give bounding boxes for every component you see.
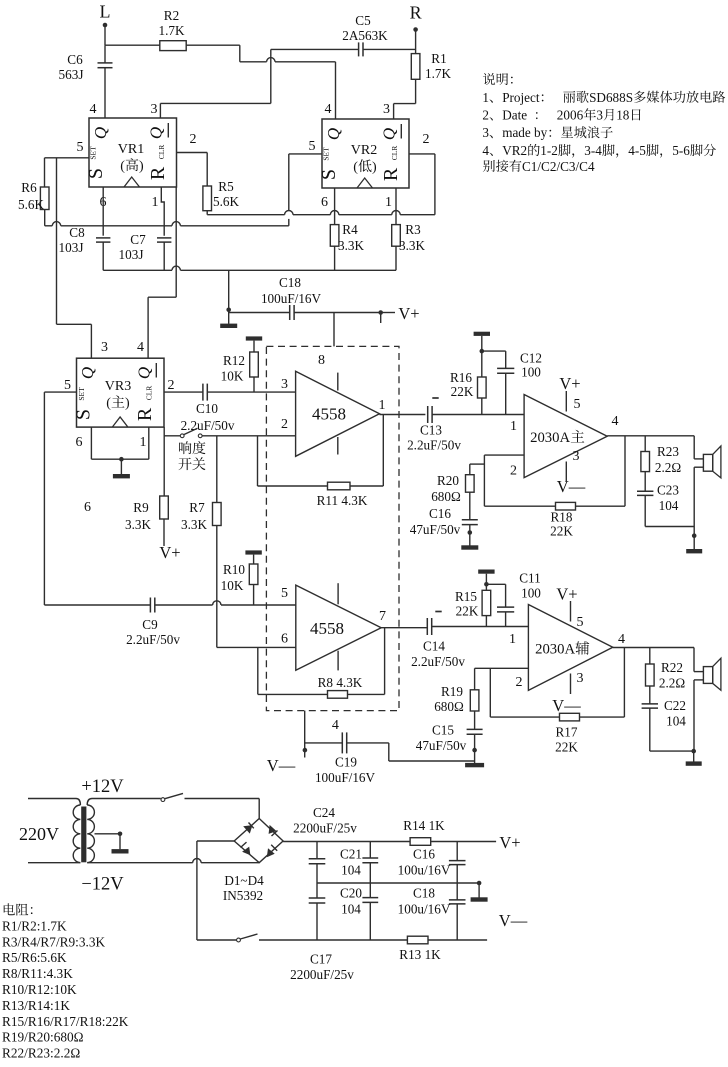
speaker aux [694,648,721,752]
wire L node down to R2 level [104,25,106,45]
net label V- psu [499,911,528,930]
svg-text:104: 104 [666,714,686,729]
wire 4558B out to C14 [381,627,427,629]
ground under C15 [465,750,484,767]
svg-text:100: 100 [521,586,541,601]
pin label VR1-6 [100,195,107,210]
svg-text:V—: V— [499,911,528,930]
pin label 4558B-5 [281,586,288,601]
transformer T1 primary [28,799,80,863]
svg-text:V+: V+ [559,374,580,393]
svg-text:4: 4 [137,340,144,355]
svg-text:1: 1 [385,195,392,210]
svg-text:2.2Ω: 2.2Ω [655,460,681,475]
wire 2030A output [607,435,694,437]
capacitor C16 psu [398,842,466,884]
wire R18 to pin2 [484,455,555,506]
svg-text:VR1: VR1 [118,142,144,157]
power switch bottom [237,934,408,942]
svg-text:2: 2 [516,675,523,690]
resistor R11 [317,482,368,508]
svg-text:R15/R16/R17/R18:22K: R15/R16/R17/R18:22K [2,1014,129,1029]
svg-text:2: 2 [281,417,288,432]
wire C10 to 4558 pin3 [207,391,295,393]
svg-text:47uF/50v: 47uF/50v [410,522,461,537]
pin label 2030A-2 [510,464,517,479]
svg-text:C15: C15 [432,723,454,738]
ground under speaker main [686,536,702,554]
pin label VR1-3 [151,102,158,117]
wire VR1 pin2 to R5 [177,153,208,187]
feedback wire to R11 [350,415,383,487]
svg-text:22K: 22K [451,384,474,399]
resistor R16 [450,351,486,399]
resistor R1 [411,51,451,81]
resistor R9 [125,496,168,532]
pin label 2030B-3 [577,671,584,686]
svg-text:3: 3 [482,125,489,140]
analog switch VR3 [73,358,165,427]
pin label VR2-5 [309,139,316,154]
svg-text:R22: R22 [661,660,683,675]
svg-text:R16: R16 [450,370,472,385]
svg-text:Q: Q [147,127,166,139]
wire R1 to VR2 pin3 [394,79,416,119]
svg-text:C16: C16 [413,847,435,862]
svg-text:V—: V— [267,756,296,775]
svg-text:R13/R14:1K: R13/R14:1K [2,998,70,1013]
pin label VR1-4 [90,102,97,117]
wire ground rail to C18 node [228,270,230,310]
transformer core [81,807,86,863]
svg-text:680Ω: 680Ω [434,699,464,714]
wire VR3 corner to switch and R9 [164,427,180,496]
svg-text:R: R [147,166,169,180]
svg-text:R13 1K: R13 1K [399,947,441,962]
node L input [100,2,111,28]
svg-text:4558: 4558 [312,405,346,424]
wire R15 to input wire [485,616,487,627]
wire C9 to 4558 pin5 [155,601,296,605]
svg-text:R4: R4 [342,222,358,237]
capacitor C8 [59,225,111,255]
svg-text:3: 3 [596,108,603,123]
svg-text:R19/R20:680Ω: R19/R20:680Ω [2,1030,84,1045]
svg-text:S: S [73,409,95,420]
svg-text:2.2uF/50v: 2.2uF/50v [407,438,461,453]
node R input [410,3,422,32]
wire C13 to 2030A pin1 [432,414,524,416]
svg-text:S: S [85,168,107,179]
svg-text:680Ω: 680Ω [431,489,461,504]
pin label 4558B-6 [281,632,288,647]
svg-text:V—: V— [557,477,586,496]
svg-text:Q: Q [380,128,399,140]
svg-text:5: 5 [309,139,316,154]
power tap above R16 [474,332,490,351]
capacitor C24 [293,805,357,883]
wire R16 to input wire [481,398,483,415]
svg-text:R18: R18 [551,510,573,525]
svg-text:100uF/16V: 100uF/16V [315,770,376,785]
notes text [482,73,725,174]
svg-text:C10: C10 [196,401,218,416]
svg-text:6: 6 [76,435,83,450]
wire R11 to pin2 wire [258,436,328,486]
svg-text:18: 18 [616,108,630,123]
wire R7 to 4558 pin6 [217,526,296,648]
svg-text:2.2uF/50v: 2.2uF/50v [126,632,180,647]
svg-text:2: 2 [482,108,489,123]
wire switch to 4558 pin2 [202,435,296,437]
net label V- 2030A [557,477,586,496]
svg-text:R1/R2:1.7K: R1/R2:1.7K [2,918,67,933]
svg-text:(: ( [353,160,358,175]
pin tick 4558A top [337,373,339,391]
wire 2030A pin2 [484,454,524,456]
node C18 ground junction [226,308,231,313]
middle rail 0V [317,882,479,884]
resistor R3 [392,222,426,253]
svg-text:5-6: 5-6 [672,143,690,158]
svg-text:C22: C22 [664,698,686,713]
op-amp 4558 A [296,371,380,456]
wire C7 to ground rail [163,242,165,270]
capacitor C22 [642,686,687,729]
pin label VR1-1 [152,195,159,210]
pin label VR2-1 [385,195,392,210]
svg-text:104: 104 [341,902,361,917]
svg-text:SET: SET [322,147,331,161]
svg-text:1: 1 [482,90,489,105]
svg-text:3-4: 3-4 [584,143,602,158]
pin label VR3-1 [140,435,147,450]
svg-text:): ) [125,396,130,411]
svg-text:1: 1 [140,435,147,450]
wire R node to R1 [415,30,417,54]
op-amp 2030A main [524,395,607,478]
ground under VR3 [113,459,130,478]
svg-text:+12V: +12V [81,777,124,797]
svg-text:2030A: 2030A [535,642,575,658]
svg-text:D1~D4: D1~D4 [224,873,264,888]
net label V+ psu [499,833,520,852]
svg-text:103J: 103J [59,240,84,255]
svg-text:22K: 22K [550,524,573,539]
svg-text:SET: SET [77,387,86,401]
svg-text:C16: C16 [429,506,451,521]
svg-text:5.6K: 5.6K [18,197,44,212]
capacitor C13 [407,398,461,453]
resistor R5 [203,179,240,211]
svg-text:563J: 563J [59,67,84,82]
capacitor C5 [342,13,388,56]
wire 2030B output [613,647,694,649]
node speaker ground junction [692,527,697,539]
capacitor C7 [119,232,172,262]
op-amp 4558 B [296,585,381,670]
pin tick 4558B top [337,583,339,604]
power switch top [161,793,259,801]
svg-text:R20: R20 [437,473,459,488]
wire C19 to C15 ground [347,743,475,761]
svg-text:10K: 10K [221,369,244,384]
svg-text:3: 3 [281,377,288,392]
ground rail under C7 C8 R4 R3 [103,266,396,270]
wire VR1 pin1 to C7 [161,187,164,236]
wire VR2 pin5 riser [289,154,322,211]
ground at C18 node [220,310,237,328]
svg-text:SD688S: SD688S [589,90,633,105]
svg-text:104: 104 [341,863,361,878]
ground under speaker aux [686,751,702,766]
net label V+ 2030B [556,585,577,604]
pin label VR2-6 [321,195,328,210]
wire VR3 pin2 to C10 [164,391,203,393]
wire VR1 pin5 branch to VR3 pin3 [57,158,92,358]
svg-text:4: 4 [482,143,489,158]
svg-text:CLR: CLR [157,145,166,160]
svg-text:R12: R12 [223,353,245,368]
resistor R2 [158,8,186,51]
analog switch VR2 [318,119,409,188]
svg-text:C13: C13 [420,423,442,438]
svg-text:Q: Q [78,367,97,379]
wire VR1 pin3 to C5 [160,49,358,118]
svg-text:2.2Ω: 2.2Ω [659,676,685,691]
wire VR3 pin6 pin1 to ground [91,427,148,459]
svg-text:5: 5 [64,378,71,393]
pin label 2030A-4 [612,414,619,429]
wire C5 to R1 [363,48,416,50]
wire L to R2 [105,44,160,46]
ground middle rail [471,883,488,902]
svg-text:4: 4 [90,102,97,117]
svg-text:5: 5 [577,615,584,630]
wire R17 to pin2 [490,668,559,717]
resistor R7 [181,436,221,532]
resistor R23 [641,436,681,475]
svg-text:V+: V+ [159,543,180,562]
pin label 4558A-8 [318,353,325,368]
svg-text:C11: C11 [519,571,541,586]
capacitor C17 [290,883,354,982]
pin label 4558B-7 [379,609,386,624]
wire 4558A out to C13 [380,414,426,416]
svg-text:C23: C23 [657,483,679,498]
pin tick 4558A bottom [337,437,339,455]
capacitor C6 [59,45,113,118]
svg-text:C17: C17 [310,952,332,967]
pin label 4558-4 [332,718,339,733]
wire R9 to V+ [163,519,165,546]
feedback drop 2030B [580,648,625,718]
svg-text:CLR: CLR [390,146,399,161]
wire V- to C19 [304,711,306,758]
power tap above R10 [245,550,261,564]
loudness switch [179,428,206,470]
pin label VR2-3 [383,102,390,117]
resistor R14 [403,818,445,845]
capacitor C11 [486,571,541,627]
wire R3 to ground rail [395,246,397,270]
capacitor C14 [411,612,465,670]
resistor R19 [434,668,479,714]
ground under C16 [461,533,478,550]
svg-text:R3: R3 [405,222,421,237]
svg-text:R1: R1 [431,51,446,66]
svg-text:C19: C19 [335,755,357,770]
svg-text:8: 8 [318,353,325,368]
node C16 bottom [468,525,473,535]
resistor R15 [455,584,491,618]
power tap above R15 [478,570,494,585]
svg-text:3: 3 [573,449,580,464]
svg-text:1: 1 [510,419,517,434]
node V- tap [303,748,308,753]
svg-text:47uF/50v: 47uF/50v [416,738,467,753]
wire R6 to VR2 pin5 [45,210,289,226]
svg-text:C6: C6 [67,52,83,67]
node C15 bottom [472,734,477,752]
svg-text:2200uF/25v: 2200uF/25v [293,821,357,836]
svg-text:R10: R10 [223,562,245,577]
wire C14 to 2030B pin1 [432,626,529,628]
wire VR1 pin5 [45,157,90,159]
power tap above R12 [246,336,262,352]
pin label 2030A-5 [574,397,581,412]
wire VR2 pin6 to R4 [334,188,336,225]
wire C22 to speaker return [650,708,694,751]
pin label 4558A-1 [379,398,386,413]
svg-text:R17: R17 [556,725,578,740]
svg-text:R3/R4/R7/R9:3.3K: R3/R4/R7/R9:3.3K [2,934,105,949]
capacitor C19 [305,732,376,785]
svg-text:R9: R9 [133,500,149,515]
wire 2030B pin2 [475,667,529,669]
dashed box around 4558 [266,346,399,710]
capacitor C18 psu [398,883,466,940]
speaker main [694,436,721,527]
wire bridge minus output [197,841,234,940]
svg-text:Project: Project [502,90,540,105]
node R16 top [480,349,485,354]
resistor R18 [550,502,575,538]
pin tick 2030A-5 [565,391,567,412]
svg-text:V+: V+ [499,833,520,852]
svg-text:100uF/16V: 100uF/16V [261,291,322,306]
wire R4 to ground rail [334,246,336,270]
svg-text:4-5: 4-5 [628,143,646,158]
svg-text:): ) [139,159,144,174]
svg-text:C1/C2/C3/C4: C1/C2/C3/C4 [522,159,595,174]
svg-text:C8: C8 [69,225,85,240]
svg-text:R6: R6 [21,180,37,195]
svg-text:R: R [134,407,156,421]
pin label 2030B-2 [516,675,523,690]
wire bottom rail [197,939,237,941]
svg-text:4: 4 [618,632,625,647]
pin tick 2030B-3 [570,674,572,695]
node speaker aux ground junction [691,749,696,754]
pin label 2030B-1 [509,632,516,647]
svg-text:SET: SET [89,146,98,160]
svg-text:3: 3 [151,102,158,117]
svg-text:CLR: CLR [145,386,154,401]
pin label 4558A-3 [281,377,288,392]
svg-text:R14 1K: R14 1K [403,818,445,833]
svg-text:2.2uF/50v: 2.2uF/50v [181,418,235,433]
capacitor C9 [126,598,180,648]
svg-text:C21: C21 [340,847,362,862]
net label V+ top [398,304,419,323]
net label -12V [81,875,124,895]
wire bottom rail right [428,939,487,941]
wire C23 to speaker return [645,495,694,526]
svg-text:100u/16V: 100u/16V [398,863,451,878]
resistor R20 [431,464,484,504]
pin tick 2030A-3 [565,462,567,482]
wire R10 to pin5 wire [253,585,255,606]
svg-text:R19: R19 [441,684,463,699]
svg-text:4558: 4558 [310,619,344,638]
svg-text:100u/16V: 100u/16V [398,902,451,917]
resistor R4 [330,222,364,253]
svg-text:100: 100 [521,365,541,380]
svg-text:IN5392: IN5392 [223,888,263,903]
svg-text:103J: 103J [119,247,144,262]
svg-text:5: 5 [574,397,581,412]
svg-text:(: ( [120,159,125,174]
svg-text:220V: 220V [19,824,59,844]
net label V+ under R9 [159,543,180,562]
svg-text:R23: R23 [657,444,679,459]
wire VR1 pin6 to C8 [102,187,104,236]
capacitor C15 feedback [416,711,483,753]
wire VR3 pin5 to C9 [44,392,150,605]
svg-text:(: ( [106,396,111,411]
transformer T1 secondary [87,799,259,863]
analog switch VR1 [85,118,177,187]
svg-text:10K: 10K [221,578,244,593]
pin label VR3-4 [137,340,144,355]
svg-text:C5: C5 [355,13,371,28]
resistor values text [2,903,129,1060]
svg-text:3: 3 [577,671,584,686]
svg-text:R15: R15 [455,589,477,604]
svg-text:4: 4 [325,102,332,117]
svg-text:R22/R23:2.2Ω: R22/R23:2.2Ω [2,1046,80,1061]
svg-text:made by: made by [502,125,547,140]
svg-text:6: 6 [281,632,288,647]
net label V+ 2030A [559,374,580,393]
svg-text:R8 4.3K: R8 4.3K [318,675,363,690]
node R15 top [484,582,489,587]
wire VR1 corner to VR3 pin4 [148,187,176,358]
resistor R12 [221,352,259,384]
svg-text:VR3: VR3 [105,379,131,394]
svg-text:Date: Date [502,108,534,123]
pin label VR3-2 [168,378,175,393]
net label V- bottom [267,756,296,775]
svg-text:4: 4 [332,718,339,733]
svg-text:2030A: 2030A [530,430,570,446]
svg-text:R5: R5 [218,179,234,194]
svg-text:S: S [318,169,340,180]
wire bridge plus output [283,841,410,843]
svg-text:C24: C24 [313,805,335,820]
svg-text:3: 3 [383,102,390,117]
